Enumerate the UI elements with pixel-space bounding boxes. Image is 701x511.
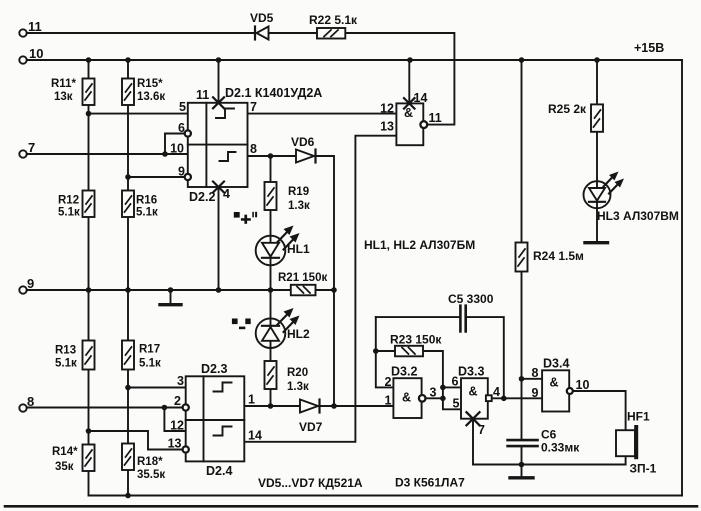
inverting input bubble D2.3 pin 2 <box>183 404 189 410</box>
svg-text:10: 10 <box>576 378 590 392</box>
junction wire9 col B <box>125 287 131 293</box>
wire D2.3 pin 3 from column B <box>128 387 186 389</box>
svg-text:35.5к: 35.5к <box>137 469 165 481</box>
wire net 11: terminal 11 to VD5/R22 <box>27 32 317 34</box>
svg-text:R13: R13 <box>55 345 76 357</box>
terminal 10 <box>19 56 26 63</box>
svg-text:R16: R16 <box>136 195 157 207</box>
junction pin6 lead <box>440 385 446 391</box>
svg-text:2: 2 <box>174 394 181 408</box>
output bubble D3.2 pin 3 <box>419 395 426 402</box>
buzzer HF1 <box>616 427 636 457</box>
wire R19-HL1-HL2-R20 column <box>270 156 272 406</box>
svg-text:VD5: VD5 <box>250 11 274 25</box>
power pin X mark D2 pin 4 <box>213 182 224 193</box>
op-amp comparator block D2.1/D2.2 <box>188 103 248 187</box>
wire D3.4 output pin 10 to HF1 top <box>573 391 626 431</box>
wire net 8: terminal 8 to D2.3 pin 2 <box>27 407 183 409</box>
svg-text:12: 12 <box>170 419 184 433</box>
resistor R11 <box>83 79 95 106</box>
resistor R22 <box>317 28 345 39</box>
junction on wire 10 at R15 <box>125 57 131 63</box>
svg-text:5.1к: 5.1к <box>55 358 77 370</box>
svg-text:6: 6 <box>452 375 459 389</box>
svg-text:1.3к: 1.3к <box>288 200 310 212</box>
svg-text:+15В: +15В <box>634 41 664 55</box>
resistor R12 <box>83 191 95 218</box>
terminal 8 <box>19 404 26 411</box>
junction wire9 col A <box>86 287 92 293</box>
wire D3.3 pin 7 to ground node <box>473 419 522 465</box>
junction pin6 branch on wire 7 <box>162 151 168 157</box>
svg-text:7: 7 <box>28 140 35 155</box>
wire branch to D2.3 pin 12 <box>164 408 185 432</box>
NAND gate D3.2 <box>393 378 421 418</box>
svg-text:8: 8 <box>250 142 257 156</box>
wire R23 right to D3.3 pin 5 column <box>423 351 461 409</box>
polarity label plus <box>234 212 257 224</box>
svg-text:13к: 13к <box>54 91 73 103</box>
wire net +15V: bottom rail <box>89 495 683 497</box>
ground symbol on wire 9 <box>160 290 181 305</box>
wire D3.3 pin 4 output to D3.4 pin 9 <box>492 397 542 399</box>
hysteresis symbol D2.3 <box>214 383 232 392</box>
resistor R15 <box>122 79 134 106</box>
power pin X mark D2 pin 11 <box>213 97 224 108</box>
junction wire9 right corner at VD6 branch <box>331 287 337 293</box>
svg-text:6: 6 <box>178 121 185 135</box>
svg-text:R15*: R15* <box>137 78 163 90</box>
wire D2 pin 11 power column <box>218 60 220 103</box>
svg-text:R22 5.1к: R22 5.1к <box>309 13 358 27</box>
junction pin1 wire at R20 <box>268 403 274 409</box>
wire D2.3 pin 1 output to D3.2 pin 1 <box>244 405 393 407</box>
LED HL2 <box>256 308 300 348</box>
LED HL1 <box>256 226 300 266</box>
NAND gate D3.4 <box>542 370 569 411</box>
wire net 9: terminal 9 common rail <box>27 289 334 291</box>
svg-text:5: 5 <box>453 397 460 411</box>
resistor R18 <box>122 444 134 471</box>
svg-text:R25 2к: R25 2к <box>548 102 587 116</box>
junction VD6 branch at pin1 wire <box>331 403 337 409</box>
power pin X mark D3.1 pin 14 <box>404 98 415 109</box>
wire D2.4 pin 14 output to D3.1 pin 13 <box>244 136 396 442</box>
wire D3.3 pin 6 lead <box>443 386 461 388</box>
wire net +15V: right edge vertical down <box>681 60 683 496</box>
ground bar below HL3 <box>585 241 608 244</box>
wire D3.1 pin 14 up to +15V <box>408 60 410 103</box>
ground symbol below C6 <box>510 465 533 478</box>
wire D2.2 pin 8 to VD6 and corner <box>248 156 335 406</box>
svg-text:1: 1 <box>385 394 392 408</box>
wire D2.4 pin 13 from column A <box>89 431 183 450</box>
svg-text:7: 7 <box>250 100 257 114</box>
svg-text:13: 13 <box>380 120 394 134</box>
hysteresis symbol D2.4 <box>214 427 232 436</box>
wire column A segments (R11-R12-R13-R14 chain) <box>88 60 90 496</box>
junction column B at bottom rail <box>125 493 131 499</box>
svg-text:11: 11 <box>196 88 209 102</box>
svg-text:3: 3 <box>177 374 184 388</box>
svg-text:4: 4 <box>223 187 230 201</box>
svg-text:D2.2: D2.2 <box>189 190 215 204</box>
junction pin3 wire at column B <box>125 385 131 391</box>
svg-text:D2.3: D2.3 <box>201 362 227 376</box>
resistor R17 <box>122 341 134 370</box>
svg-text:7: 7 <box>478 423 485 437</box>
svg-text:HL1, HL2 АЛ307БМ: HL1, HL2 АЛ307БМ <box>364 238 475 252</box>
svg-text:&: & <box>550 376 559 390</box>
svg-text:VD7: VD7 <box>299 420 323 434</box>
wire column B segments (R15-R16-R17-R18 chain) <box>127 60 129 496</box>
junction pin5 wire at column A <box>86 111 92 117</box>
svg-text:5.1к: 5.1к <box>58 207 80 219</box>
NAND gate D3.1 <box>396 103 423 145</box>
svg-text:D3.2: D3.2 <box>391 365 417 379</box>
svg-text:5: 5 <box>179 100 186 114</box>
wire ground node to HF1 bottom <box>522 454 626 465</box>
svg-text:D2.4: D2.4 <box>206 464 232 478</box>
svg-text:HL3 АЛ307ВМ: HL3 АЛ307ВМ <box>597 209 679 223</box>
wire D2.1 pin 5 from column A <box>89 113 188 115</box>
wire R23 left lead <box>376 350 395 352</box>
junction pin9 wire at column B <box>125 174 131 180</box>
resistor R19 <box>265 182 277 210</box>
inverting input bubble D2.4 pin 13 <box>183 446 189 452</box>
resistor R23 <box>395 346 423 357</box>
svg-text:11: 11 <box>28 19 42 34</box>
svg-text:2: 2 <box>385 375 392 389</box>
svg-text:1: 1 <box>248 393 255 407</box>
wire net +15V: terminal 10 rail across top <box>27 59 682 61</box>
junction pin8 wire at R19 <box>268 153 274 159</box>
svg-text:14: 14 <box>414 91 428 105</box>
svg-text:R19: R19 <box>288 186 309 198</box>
output square D3.3 pin 4 <box>486 395 492 401</box>
polarity label minus <box>232 319 251 330</box>
svg-text:10: 10 <box>29 46 43 61</box>
resistor R24 <box>516 243 528 272</box>
svg-text:5.1к: 5.1к <box>139 358 161 370</box>
wire branch to D2.1 pin 6 <box>165 134 185 155</box>
junction pin3 lead <box>440 396 446 402</box>
junction on wire 10 at D2 pin11 <box>216 57 222 63</box>
capacitor C5 <box>460 306 465 332</box>
svg-text:8: 8 <box>27 394 34 409</box>
resistor R14 <box>83 445 95 472</box>
wire D2 pin 4 power column <box>218 187 220 290</box>
wire D3.4 pin 8 lead <box>522 378 543 380</box>
svg-text:9: 9 <box>532 386 539 400</box>
resistor R16 <box>122 191 134 218</box>
svg-text:11: 11 <box>429 111 442 125</box>
svg-text:D2.1 К1401УД2А: D2.1 К1401УД2А <box>225 86 322 100</box>
svg-text:0.33мк: 0.33мк <box>541 441 580 455</box>
svg-text:9: 9 <box>27 276 34 291</box>
terminal 7 <box>19 150 26 157</box>
svg-text:R20: R20 <box>287 367 308 379</box>
svg-text:VD6: VD6 <box>291 135 315 149</box>
svg-text:35к: 35к <box>55 461 74 473</box>
power pin X mark D3.3 pin 7 <box>467 412 480 425</box>
junction wire8 branch to pin12 <box>162 405 168 411</box>
wire C5 top left segment <box>376 316 460 318</box>
hysteresis symbol D2.2 <box>220 152 236 161</box>
svg-text:D3 К561ЛА7: D3 К561ЛА7 <box>395 476 465 490</box>
wire R25/HL3 column <box>596 60 598 242</box>
svg-text:R12: R12 <box>58 195 79 207</box>
resistor R20 <box>265 361 277 389</box>
junction pin4 node <box>501 396 507 402</box>
svg-text:R17: R17 <box>139 344 160 356</box>
svg-text:8: 8 <box>532 366 539 380</box>
svg-text:R21 150к: R21 150к <box>278 272 327 284</box>
svg-text:ЗП-1: ЗП-1 <box>630 462 657 476</box>
svg-text:HF1: HF1 <box>627 410 650 424</box>
diode VD7 <box>300 400 320 413</box>
wire net 7: terminal 7 to D2.1 pin 10 <box>27 153 188 155</box>
svg-text:R11*: R11* <box>51 78 76 90</box>
svg-text:R24 1.5м: R24 1.5м <box>533 249 584 263</box>
svg-text:4: 4 <box>493 385 500 399</box>
svg-text:R18*: R18* <box>137 456 163 468</box>
junction wire9 HL1/HL2 column <box>268 287 274 293</box>
wire D2.1 pin 9 from column B <box>128 176 185 178</box>
output bubble D3.1 pin 11 <box>420 121 427 128</box>
NAND gate D3.3 <box>461 378 488 419</box>
svg-text:C5 3300: C5 3300 <box>448 292 494 306</box>
wire C5 left branch to D3.2 pin 2 <box>376 317 394 387</box>
svg-text:13: 13 <box>168 437 182 451</box>
svg-text:HL2: HL2 <box>287 327 310 341</box>
terminal 9 <box>19 286 26 293</box>
svg-text:&: & <box>469 385 478 399</box>
inverting input bubble D2.1 pin 6 <box>185 130 191 136</box>
resistor R13 <box>83 341 95 370</box>
junction wire9 D2 pin4 column <box>216 287 222 293</box>
svg-text:R23 150к: R23 150к <box>390 333 442 347</box>
wire C5 right segment down to pin4 node <box>466 317 504 398</box>
svg-text:D3.3: D3.3 <box>458 365 484 379</box>
svg-text:1.3к: 1.3к <box>287 381 309 393</box>
wire D3.2 output pin 3 lead <box>426 397 443 399</box>
resistor R21 <box>291 285 316 296</box>
svg-text:14: 14 <box>248 429 262 443</box>
hysteresis symbol D2.1 <box>216 109 234 119</box>
junction wire9 ground stub <box>168 287 174 293</box>
diode VD6 <box>296 150 316 163</box>
svg-text:9: 9 <box>178 165 185 179</box>
LED HL3 <box>584 172 625 209</box>
svg-text:VD5...VD7 КД521А: VD5...VD7 КД521А <box>258 476 363 490</box>
junction ground node at C6 <box>519 462 525 468</box>
svg-text:13.6к: 13.6к <box>137 91 165 103</box>
junction on wire 10 at R25 <box>594 57 600 63</box>
diode VD5 <box>255 27 269 40</box>
scan frame bottom edge <box>5 505 697 508</box>
output bubble D3.4 pin 10 <box>567 388 573 394</box>
svg-text:R14*: R14* <box>52 446 78 458</box>
svg-text:5.1к: 5.1к <box>136 207 158 219</box>
svg-text:3: 3 <box>430 386 437 400</box>
junction R23 left <box>373 348 379 354</box>
junction on wire 10 at R11 <box>86 57 92 63</box>
svg-text:HL1: HL1 <box>287 242 310 256</box>
inverting input bubble D2.2 pin 9 <box>185 174 191 180</box>
capacitor C6 <box>508 440 538 446</box>
junction on wire 10 at R24 <box>519 57 525 63</box>
svg-text:C6: C6 <box>541 428 557 442</box>
resistor R25 <box>591 104 603 131</box>
terminal 11 <box>19 29 26 36</box>
junction pin13 wire at column A <box>86 428 92 434</box>
svg-text:12: 12 <box>380 102 394 116</box>
svg-text:&: & <box>404 106 413 120</box>
op-amp comparator block D2.3/D2.4 <box>186 376 245 461</box>
wire R24/C6 column <box>521 60 523 465</box>
svg-text:10: 10 <box>170 142 184 156</box>
junction on wire 10 at D3.1 pin14 <box>407 57 413 63</box>
junction pin8 at R24 column <box>519 376 525 382</box>
wire D2.1 pin 7 to D3.1 pin 12 <box>248 113 397 115</box>
wire net 11: R22 right to D3.1 output pin 11 <box>345 33 454 125</box>
svg-text:D3.4: D3.4 <box>543 357 569 371</box>
svg-text:&: & <box>402 391 411 405</box>
